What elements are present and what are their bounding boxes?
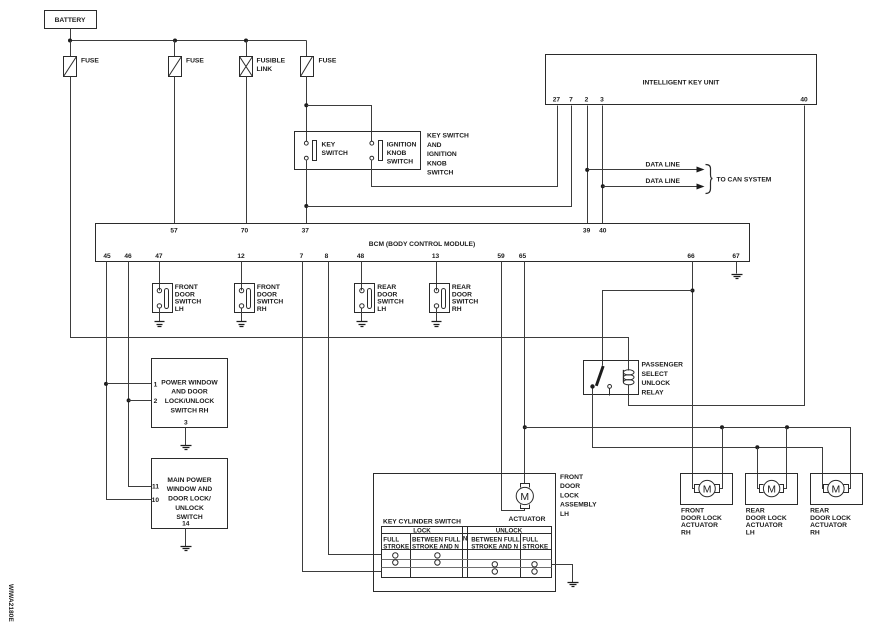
wire data line 1 — [588, 161, 705, 172]
motor M2 front door lock actuator RH — [695, 480, 720, 496]
svg-text:REAR: REAR — [810, 508, 829, 515]
ground power window switch — [181, 446, 192, 450]
svg-text:STROKE AND N: STROKE AND N — [471, 543, 518, 550]
wire IKU pin 40 to relay coil return — [629, 106, 805, 406]
svg-text:STROKE: STROKE — [383, 543, 409, 550]
svg-text:DOOR LOCK/: DOOR LOCK/ — [168, 496, 211, 503]
rear door switch LH — [355, 284, 404, 313]
svg-text:45: 45 — [103, 253, 111, 260]
wire key cylinder switch to ground — [552, 565, 573, 583]
svg-text:66: 66 — [687, 253, 695, 260]
wire bus to fuse2 — [174, 41, 176, 57]
svg-text:RH: RH — [257, 306, 267, 313]
BCM (body control module) U2 — [96, 224, 750, 262]
fuse F2 — [169, 57, 205, 77]
svg-text:UNLOCK: UNLOCK — [642, 380, 671, 387]
svg-text:LH: LH — [746, 529, 755, 536]
wire bus to fuse4 — [306, 41, 308, 57]
fusible link FL — [240, 57, 286, 77]
svg-text:LH: LH — [377, 306, 386, 313]
svg-text:WINDOW AND: WINDOW AND — [167, 486, 213, 493]
svg-text:46: 46 — [124, 253, 132, 260]
svg-text:67: 67 — [732, 253, 740, 260]
svg-text:RELAY: RELAY — [642, 389, 665, 396]
svg-text:57: 57 — [170, 228, 178, 235]
wire BCM pin 12 to front door switch RH — [241, 262, 243, 291]
svg-text:FRONT: FRONT — [175, 284, 199, 291]
svg-text:SWITCH: SWITCH — [257, 299, 284, 306]
svg-text:TO CAN SYSTEM: TO CAN SYSTEM — [717, 176, 772, 183]
svg-text:70: 70 — [241, 228, 249, 235]
svg-text:LH: LH — [560, 511, 569, 518]
svg-text:SWITCH: SWITCH — [176, 514, 203, 521]
ground front door switch RH — [237, 322, 247, 327]
svg-text:FRONT: FRONT — [681, 508, 705, 515]
battery B1 — [45, 11, 97, 29]
wire bus to fusible link — [246, 41, 248, 57]
svg-text:47: 47 — [155, 253, 163, 260]
wire line A actuator feed — [525, 428, 851, 485]
fuse F1 — [64, 57, 100, 77]
svg-text:DOOR: DOOR — [452, 291, 472, 298]
svg-text:AND DOOR: AND DOOR — [171, 389, 208, 396]
node bus-fuse2 — [173, 39, 177, 43]
svg-text:LINK: LINK — [257, 66, 273, 73]
label front door lock actuator RH — [681, 508, 722, 537]
svg-text:M: M — [832, 483, 841, 495]
svg-text:UNLOCK: UNLOCK — [175, 505, 204, 512]
intelligent key unit U1 — [546, 55, 817, 105]
node pin45 branch — [104, 382, 108, 386]
svg-text:KNOB: KNOB — [427, 160, 447, 167]
wire data line 2 — [603, 178, 705, 190]
svg-text:DATA LINE: DATA LINE — [646, 161, 681, 168]
wire BCM pin 48 to rear door switch LH — [361, 262, 363, 291]
svg-text:39: 39 — [583, 228, 591, 235]
wire BCM pin 66 to front door lock actuator RH — [693, 262, 695, 489]
svg-text:RH: RH — [681, 529, 691, 536]
svg-text:DOOR: DOOR — [377, 291, 397, 298]
wire branch to ignition knob switch — [307, 106, 372, 142]
svg-text:FRONT: FRONT — [257, 284, 281, 291]
wire key switch to IKU pin 7 — [307, 106, 572, 207]
wire fuse2 to BCM pin 57 — [174, 77, 176, 224]
brace to CAN system — [706, 165, 713, 194]
svg-text:M: M — [520, 491, 529, 503]
svg-text:IGNITION: IGNITION — [427, 151, 457, 158]
node bus-fusible-link — [244, 39, 248, 43]
svg-text:1: 1 — [154, 382, 158, 389]
wire bus — [71, 40, 307, 42]
table header labels — [383, 527, 548, 550]
svg-text:14: 14 — [182, 521, 190, 528]
wire fuse1 to relay coil — [71, 77, 629, 371]
svg-text:65: 65 — [519, 253, 527, 260]
motor M3 rear door lock actuator LH — [760, 480, 784, 496]
svg-text:RH: RH — [810, 529, 820, 536]
svg-text:BCM (BODY CONTROL MODULE): BCM (BODY CONTROL MODULE) — [369, 241, 475, 248]
svg-text:LOCK/UNLOCK: LOCK/UNLOCK — [165, 398, 215, 405]
main power window and door lock/unlock switch — [152, 459, 228, 529]
svg-text:DOOR LOCK: DOOR LOCK — [746, 515, 787, 522]
svg-text:40: 40 — [599, 228, 607, 235]
svg-text:3: 3 — [184, 420, 188, 427]
svg-text:IGNITION: IGNITION — [387, 142, 417, 149]
node data line 1 — [585, 168, 589, 172]
wire power window switch pin 3 to ground — [185, 428, 187, 446]
wire relay common to line B — [593, 389, 823, 485]
ignition knob switch SW2 — [370, 141, 417, 166]
label rear door lock actuator LH — [746, 508, 787, 537]
relay coil L1 — [623, 370, 634, 385]
svg-text:SELECT: SELECT — [642, 371, 669, 378]
node pin46 branch — [127, 398, 131, 402]
svg-text:BATTERY: BATTERY — [55, 17, 86, 24]
svg-text:2: 2 — [154, 398, 158, 405]
svg-text:7: 7 — [569, 97, 573, 104]
wire BCM pin 7 to key cylinder switch — [303, 262, 382, 572]
svg-text:SWITCH: SWITCH — [175, 299, 202, 306]
svg-text:SWITCH: SWITCH — [452, 299, 479, 306]
ground key cylinder switch — [568, 583, 579, 587]
svg-text:10: 10 — [152, 497, 160, 504]
svg-text:BETWEEN FULL: BETWEEN FULL — [412, 536, 461, 543]
svg-text:DOOR: DOOR — [560, 483, 580, 490]
svg-text:KEY SWITCH: KEY SWITCH — [427, 133, 469, 140]
node key-switch IKU-7 branch — [304, 204, 308, 208]
svg-text:STROKE AND N: STROKE AND N — [412, 543, 459, 550]
rear door switch RH — [430, 284, 479, 313]
passenger select unlock relay K1 — [584, 361, 639, 395]
fuse F4 — [301, 57, 337, 77]
key cylinder switch contacts lock between — [435, 553, 440, 566]
front door switch LH — [153, 284, 202, 313]
node line A front actuator RH — [720, 425, 724, 429]
svg-text:RH: RH — [452, 306, 462, 313]
key cylinder switch contacts lock full stroke — [393, 553, 398, 566]
svg-text:ACTUATOR: ACTUATOR — [681, 522, 718, 529]
ground front door switch LH — [155, 322, 165, 327]
node fuse4-ignition-branch — [304, 103, 308, 107]
motor M1 assembly actuator — [516, 484, 533, 509]
svg-text:SWITCH RH: SWITCH RH — [171, 407, 209, 414]
label rear door lock actuator RH — [810, 508, 851, 537]
wire IKU pin 2 to BCM pin 39 — [587, 106, 589, 224]
svg-text:FULL: FULL — [522, 536, 538, 543]
svg-text:27: 27 — [553, 97, 561, 104]
node line A rear actuator LH — [785, 425, 789, 429]
motor M4 rear door lock actuator RH — [824, 480, 849, 496]
svg-text:POWER WINDOW: POWER WINDOW — [161, 379, 218, 386]
svg-text:FUSE: FUSE — [186, 58, 204, 65]
svg-text:REAR: REAR — [746, 508, 765, 515]
wire rear door switch RH to ground — [436, 308, 438, 322]
svg-text:LOCK: LOCK — [560, 492, 579, 499]
relay contact — [608, 385, 612, 396]
svg-text:REAR: REAR — [452, 284, 471, 291]
svg-text:WIWA2180E: WIWA2180E — [7, 584, 14, 622]
svg-text:PASSENGER: PASSENGER — [642, 362, 684, 369]
wire front door switch LH to ground — [159, 308, 161, 322]
svg-text:LH: LH — [175, 306, 184, 313]
svg-text:STROKE: STROKE — [522, 543, 548, 550]
svg-text:M: M — [767, 483, 776, 495]
svg-text:11: 11 — [152, 484, 159, 491]
node pin66 relay branch — [691, 289, 695, 293]
front door switch RH — [235, 284, 284, 313]
svg-text:KNOB: KNOB — [387, 150, 407, 157]
wire rear door switch LH to ground — [361, 308, 363, 322]
wire pin46 branch to power window switch pin 2 — [129, 400, 152, 402]
wire bus to fuse1 — [70, 41, 72, 57]
front door lock actuator RH box — [681, 474, 733, 505]
svg-text:SWITCH: SWITCH — [387, 159, 414, 166]
svg-text:37: 37 — [302, 228, 310, 235]
wire battery to bus — [70, 29, 72, 41]
wire fuse4 to key switch — [306, 77, 308, 142]
wire key switch to BCM pin 37 — [306, 161, 308, 224]
wire BCM pin 8 to key cylinder switch — [329, 262, 382, 555]
svg-text:KEY CYLINDER SWITCH: KEY CYLINDER SWITCH — [383, 519, 461, 526]
svg-text:DOOR: DOOR — [175, 291, 195, 298]
key switch SW1 — [304, 141, 348, 161]
svg-text:ACTUATOR: ACTUATOR — [810, 522, 847, 529]
svg-text:UNLOCK: UNLOCK — [496, 527, 523, 534]
wire main power switch pin 14 to ground — [185, 529, 187, 547]
label key switch and ignition knob switch — [427, 133, 469, 177]
svg-text:FUSE: FUSE — [81, 58, 99, 65]
rear door lock actuator RH box — [811, 474, 863, 505]
relay switch arm — [590, 366, 603, 389]
node data line 2 — [601, 184, 605, 188]
wire BCM pin 47 to front door switch LH — [159, 262, 161, 291]
wire BCM pin 45 to switches — [107, 262, 152, 500]
svg-text:DOOR LOCK: DOOR LOCK — [681, 515, 722, 522]
key cylinder switch table — [382, 527, 552, 578]
svg-text:ASSEMBLY: ASSEMBLY — [560, 502, 597, 509]
wire rear actuator RH left terminal — [823, 485, 824, 489]
wire BCM pin 13 to rear door switch RH — [436, 262, 438, 291]
svg-text:INTELLIGENT KEY UNIT: INTELLIGENT KEY UNIT — [643, 80, 721, 87]
svg-text:8: 8 — [325, 253, 329, 260]
node line B rear actuator LH — [755, 445, 759, 449]
label passenger select unlock relay — [642, 362, 684, 397]
svg-text:ACTUATOR: ACTUATOR — [746, 522, 783, 529]
wire relay switch feed — [603, 291, 693, 366]
rear door lock actuator LH box — [746, 474, 798, 505]
wire ignition knob switch to IKU pin 27 — [372, 106, 558, 187]
key switch and ignition knob switch box — [295, 132, 421, 170]
svg-text:AND: AND — [427, 142, 442, 149]
svg-text:DATA LINE: DATA LINE — [646, 178, 681, 185]
svg-text:7: 7 — [300, 253, 304, 260]
key cylinder switch contacts unlock between — [492, 562, 497, 575]
svg-text:MAIN POWER: MAIN POWER — [167, 477, 211, 484]
svg-text:59: 59 — [497, 253, 505, 260]
wire rear actuator LH left terminal — [758, 448, 760, 489]
svg-text:SWITCH: SWITCH — [427, 170, 454, 177]
svg-text:SWITCH: SWITCH — [377, 299, 404, 306]
wire BCM pin 65 to assembly actuator and line A — [524, 262, 526, 484]
wire IKU pin 3 to BCM pin 40 — [602, 106, 604, 224]
svg-text:FRONT: FRONT — [560, 474, 584, 481]
key cylinder switch contacts unlock full stroke — [532, 562, 537, 575]
ground BCM pin 67 — [732, 275, 743, 279]
svg-text:FUSIBLE: FUSIBLE — [257, 58, 286, 65]
ground main power switch — [181, 547, 192, 551]
front door lock assembly LH box — [374, 474, 556, 592]
svg-text:SWITCH: SWITCH — [322, 150, 349, 157]
wire BCM pin 59 to assembly actuator — [502, 262, 525, 511]
svg-text:M: M — [703, 483, 712, 495]
wire fusible link to BCM pin 70 — [246, 77, 248, 224]
svg-text:DOOR LOCK: DOOR LOCK — [810, 515, 851, 522]
svg-text:2: 2 — [585, 97, 589, 104]
svg-text:LOCK: LOCK — [413, 527, 431, 534]
svg-text:12: 12 — [237, 253, 245, 260]
wire pin45 branch to power window switch pin 1 — [107, 383, 152, 385]
wire front actuator RH right terminal — [720, 428, 723, 489]
svg-text:ACTUATOR: ACTUATOR — [509, 516, 546, 523]
power window and door lock/unlock switch RH — [152, 359, 228, 428]
svg-text:FUSE: FUSE — [319, 58, 337, 65]
label front door lock assembly LH — [560, 474, 597, 518]
svg-text:13: 13 — [432, 253, 440, 260]
svg-text:FULL: FULL — [383, 536, 399, 543]
svg-text:DOOR: DOOR — [257, 291, 277, 298]
svg-text:KEY: KEY — [322, 142, 336, 149]
svg-text:3: 3 — [600, 97, 604, 104]
svg-text:REAR: REAR — [377, 284, 396, 291]
wire BCM pin 67 to ground — [736, 262, 738, 274]
wire front door switch RH to ground — [241, 308, 243, 322]
ground rear door switch LH — [357, 322, 368, 327]
wire rear actuator RH right terminal — [849, 485, 851, 489]
ground rear door switch RH — [432, 322, 442, 327]
svg-text:N: N — [463, 536, 468, 543]
wire BCM pin 46 to switches — [129, 262, 152, 487]
node bus-fuse1 — [68, 39, 72, 43]
svg-text:BETWEEN FULL: BETWEEN FULL — [471, 536, 520, 543]
node line A start — [523, 425, 527, 429]
wire rear actuator LH right terminal — [784, 428, 787, 489]
svg-text:40: 40 — [800, 97, 808, 104]
svg-text:48: 48 — [357, 253, 365, 260]
